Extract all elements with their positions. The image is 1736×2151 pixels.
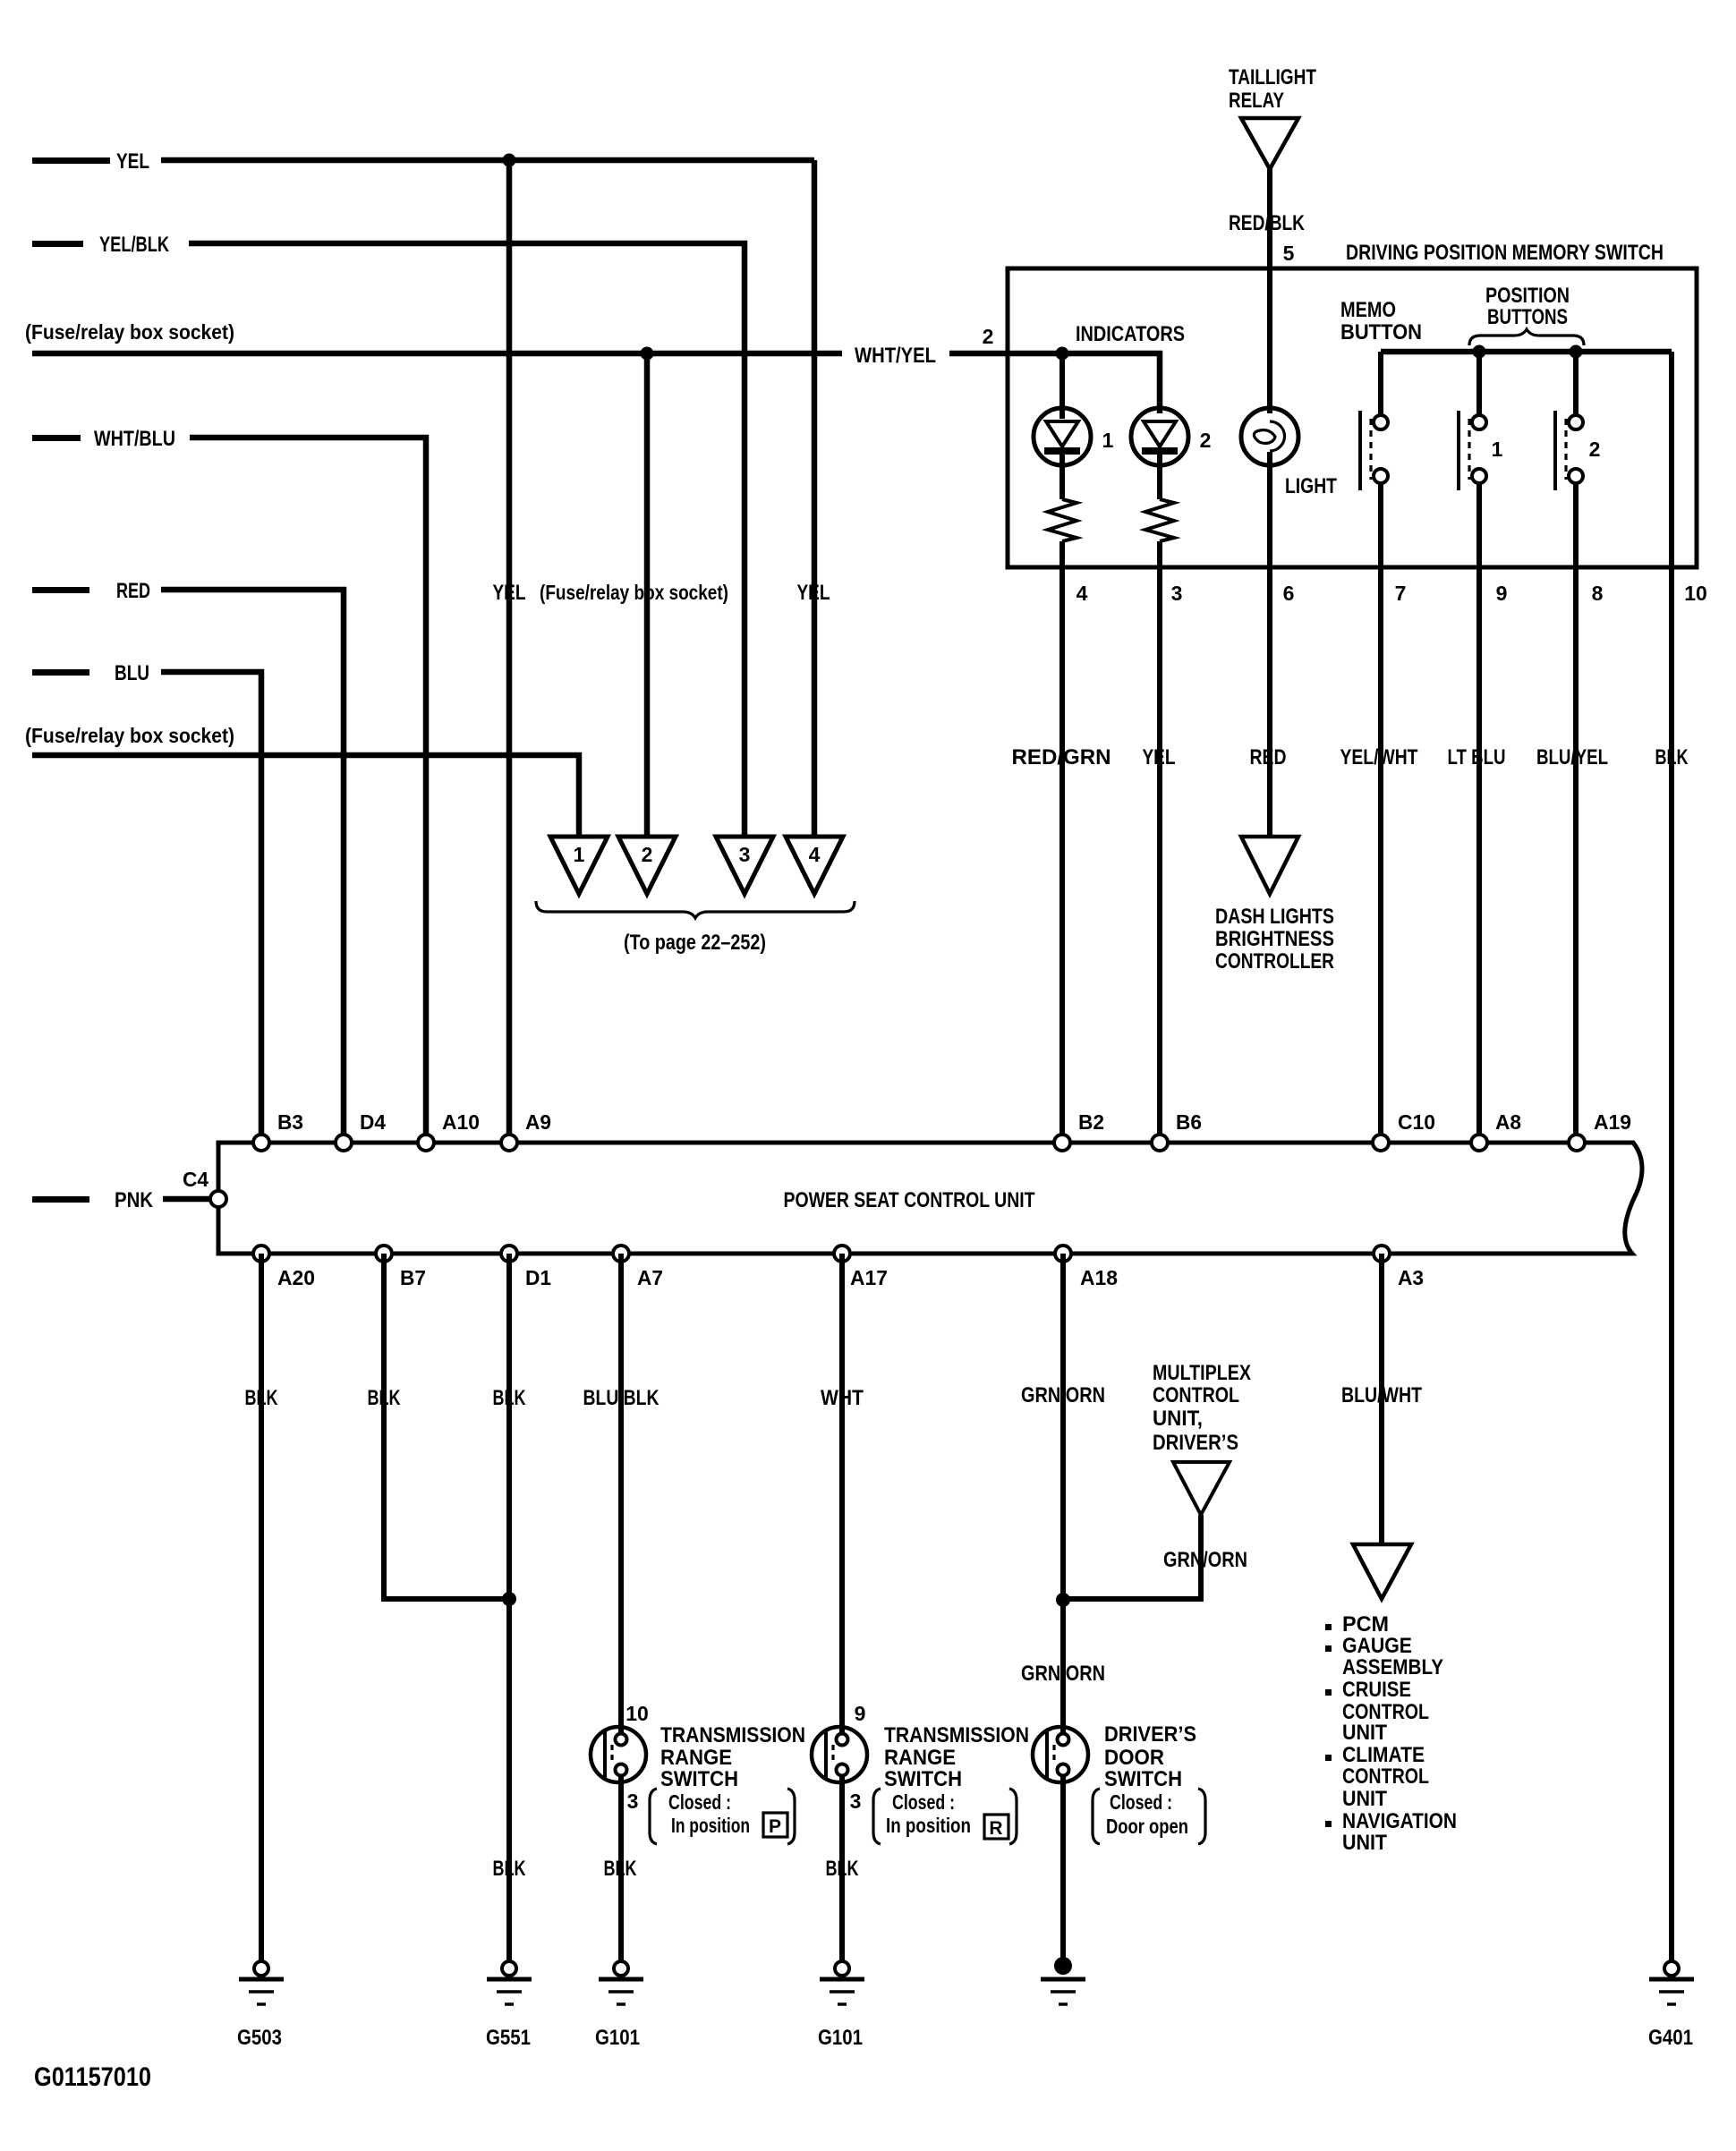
wire light bulb down to dash lights controller: [1267, 452, 1272, 837]
wire WHT/BLU run and leg down to A10: [190, 438, 426, 1143]
svg-text:WHT/BLU: WHT/BLU: [94, 427, 175, 451]
box driving position memory switch: [1008, 268, 1697, 567]
wire position button 2 drop: [1573, 352, 1579, 416]
svg-text:PCM: PCM: [1342, 1612, 1389, 1637]
svg-text:BLK: BLK: [245, 1386, 278, 1410]
svg-text:4: 4: [1076, 582, 1088, 605]
svg-text:BLU/BLK: BLU/BLK: [583, 1386, 660, 1410]
wire WHT/BLU stub: [32, 435, 81, 441]
svg-text:RANGE: RANGE: [660, 1746, 732, 1770]
svg-text:D4: D4: [360, 1110, 386, 1134]
svg-text:10: 10: [1684, 582, 1707, 605]
wire position button 1 down to A8: [1476, 483, 1482, 1143]
switch driver's door switch: [1033, 1727, 1088, 1782]
pin A9: [501, 1135, 517, 1151]
switch memo button: [1358, 411, 1362, 490]
pin C10: [1373, 1135, 1389, 1151]
svg-text:BUTTONS: BUTTONS: [1487, 305, 1568, 329]
ground G401: [1648, 1961, 1694, 2050]
svg-text:LT BLU: LT BLU: [1448, 745, 1506, 769]
svg-text:A9: A9: [525, 1110, 551, 1134]
svg-text:A8: A8: [1495, 1110, 1521, 1134]
wire memo button down to C10: [1378, 483, 1383, 1143]
wire B7 BLK down and over to D1 wire: [384, 1254, 509, 1599]
wire position button 1 drop: [1476, 352, 1482, 416]
svg-text:9: 9: [1496, 582, 1508, 605]
svg-text:7: 7: [1395, 582, 1407, 605]
svg-text:D1: D1: [525, 1266, 551, 1289]
svg-text:DRIVING POSITION MEMORY SWITCH: DRIVING POSITION MEMORY SWITCH: [1346, 241, 1664, 265]
svg-text:A10: A10: [442, 1110, 480, 1134]
svg-text:10: 10: [625, 1702, 649, 1725]
svg-text:BLK: BLK: [493, 1857, 526, 1881]
svg-text:R: R: [989, 1818, 1002, 1839]
pin D1: [501, 1246, 517, 1262]
svg-text:RANGE: RANGE: [884, 1746, 956, 1770]
svg-text:Closed :: Closed :: [668, 1790, 731, 1814]
wire RED run and leg down to D4: [161, 590, 344, 1143]
wire D1 BLK down to G551: [506, 1254, 512, 1961]
connector triangle A3 destinations: [1353, 1544, 1411, 1599]
box power seat control unit: [218, 1143, 1642, 1254]
svg-text:B6: B6: [1176, 1110, 1202, 1134]
svg-text:A7: A7: [637, 1266, 663, 1289]
wire A7 BLU/BLK down to transmission range switch: [618, 1254, 624, 1735]
brace over position buttons: [1469, 329, 1584, 345]
wire YEL horizontal run: [161, 157, 814, 164]
svg-text:3: 3: [739, 843, 751, 866]
svg-text:MEMO: MEMO: [1340, 298, 1396, 322]
svg-text:DOOR: DOOR: [1104, 1746, 1164, 1770]
svg-text:SWITCH: SWITCH: [884, 1767, 962, 1791]
wire multiplex branch GRN/ORN: [1063, 1515, 1201, 1599]
resistor under LED 2: [1145, 499, 1174, 541]
svg-text:GRN/ORN: GRN/ORN: [1021, 1383, 1105, 1407]
node position button 2 junction: [1570, 345, 1583, 359]
svg-text:4: 4: [809, 843, 821, 866]
svg-text:WHT/YEL: WHT/YEL: [855, 344, 936, 368]
wire branch down from fuse line 1 to triangle 2: [644, 353, 651, 837]
svg-text:UNIT,: UNIT,: [1153, 1407, 1203, 1431]
pin A20: [253, 1246, 269, 1262]
node position button 1 junction: [1473, 345, 1486, 359]
wire A18 below switch to ground: [1060, 1774, 1066, 1961]
brace left (door switch note): [1093, 1789, 1100, 1844]
wire RED/BLK from taillight relay down to light: [1267, 169, 1272, 413]
svg-text:RELAY: RELAY: [1229, 89, 1284, 113]
svg-text:BLU/YEL: BLU/YEL: [1536, 745, 1608, 769]
svg-text:SWITCH: SWITCH: [660, 1767, 738, 1791]
svg-text:UNIT: UNIT: [1342, 1831, 1387, 1855]
svg-text:DASH LIGHTS: DASH LIGHTS: [1215, 905, 1334, 929]
svg-text:Closed :: Closed :: [1110, 1790, 1172, 1814]
resistor under LED 1: [1048, 499, 1076, 541]
svg-text:B2: B2: [1078, 1110, 1104, 1134]
pin B2: [1054, 1135, 1070, 1151]
pin A3: [1374, 1246, 1390, 1262]
svg-text:UNIT: UNIT: [1342, 1721, 1387, 1745]
boxed letter P: [763, 1813, 787, 1837]
svg-text:BLK: BLK: [1655, 745, 1689, 769]
svg-text:A18: A18: [1080, 1266, 1118, 1289]
svg-text:POWER SEAT CONTROL UNIT: POWER SEAT CONTROL UNIT: [784, 1188, 1035, 1212]
svg-text:In position: In position: [886, 1814, 971, 1837]
node fuse line 1 junction: [641, 347, 654, 361]
wire BLU stub: [32, 669, 89, 676]
brace right (TRS R note): [1009, 1789, 1017, 1844]
brace under triangles: [536, 901, 855, 918]
wire BLK rail drop (pin 10) to G401: [1669, 352, 1674, 1961]
pin C4: [210, 1191, 226, 1207]
svg-text:G503: G503: [237, 2026, 282, 2050]
lamp LIGHT bulb: [1241, 408, 1298, 465]
svg-text:CONTROL: CONTROL: [1153, 1383, 1239, 1407]
pin A18: [1055, 1246, 1071, 1262]
pin A7: [613, 1246, 629, 1262]
svg-text:A20: A20: [277, 1266, 315, 1289]
wire fuse/relay socket line 2 and leg down to triangle 1: [32, 755, 579, 837]
svg-text:ASSEMBLY: ASSEMBLY: [1342, 1655, 1443, 1679]
svg-text:RED/BLK: RED/BLK: [1229, 211, 1306, 235]
svg-text:BLK: BLK: [493, 1386, 526, 1410]
svg-text:1: 1: [1102, 429, 1114, 452]
wire A18 GRN/ORN down to driver's door switch: [1060, 1254, 1066, 1735]
svg-text:A19: A19: [1594, 1110, 1631, 1134]
wire YEL stub: [32, 157, 110, 164]
node WHT/YEL junction at LED 1: [1056, 347, 1069, 361]
pin A17: [834, 1246, 850, 1262]
switch transmission range switch (R): [812, 1727, 867, 1782]
wire YEL right leg down to triangle 4: [812, 160, 818, 837]
svg-text:YEL/WHT: YEL/WHT: [1340, 745, 1418, 769]
node YEL junction: [503, 154, 516, 167]
svg-text:WHT: WHT: [821, 1386, 864, 1410]
svg-text:C4: C4: [183, 1168, 208, 1191]
bullet list PCM/GAUGE ASSEMBLY/CRUISE/CLIMATE/NAVIGATION: [1325, 1624, 1332, 1630]
svg-text:TRANSMISSION: TRANSMISSION: [884, 1723, 1029, 1747]
svg-text:DRIVER’S: DRIVER’S: [1104, 1722, 1196, 1747]
svg-text:Closed :: Closed :: [892, 1790, 955, 1814]
svg-text:In position: In position: [671, 1814, 750, 1837]
svg-text:5: 5: [1283, 242, 1295, 265]
brace left (TRS P note): [650, 1789, 657, 1844]
svg-text:G101: G101: [595, 2026, 640, 2050]
svg-text:(Fuse/relay box socket): (Fuse/relay box socket): [25, 724, 234, 747]
svg-text:GRN/ORN: GRN/ORN: [1163, 1548, 1247, 1572]
wire PNK stub: [32, 1196, 89, 1203]
indicator LED 2: [1131, 408, 1188, 465]
svg-text:DRIVER’S: DRIVER’S: [1153, 1431, 1238, 1455]
svg-text:2: 2: [1589, 438, 1601, 461]
svg-text:G01157010: G01157010: [34, 2062, 151, 2092]
svg-text:YEL: YEL: [493, 581, 526, 605]
svg-text:INDICATORS: INDICATORS: [1076, 322, 1185, 346]
svg-text:RED/GRN: RED/GRN: [1012, 745, 1111, 769]
svg-text:BLK: BLK: [826, 1857, 859, 1881]
svg-text:8: 8: [1592, 582, 1604, 605]
wire fuse/relay socket line 1 (WHT/YEL) left segment: [32, 351, 842, 357]
svg-text:YEL: YEL: [797, 581, 830, 605]
svg-text:GRN/ORN: GRN/ORN: [1021, 1662, 1105, 1686]
svg-text:G401: G401: [1648, 2026, 1693, 2050]
ground G101 (TRS R): [818, 1961, 864, 2050]
indicator LED 1: [1034, 408, 1091, 465]
ground G503: [237, 1961, 284, 2050]
ground (driver's door switch, unnamed): [1041, 1957, 1085, 2004]
brace right (door switch note): [1198, 1789, 1205, 1844]
svg-text:(Fuse/relay box socket): (Fuse/relay box socket): [25, 320, 234, 344]
wire A17 WHT down to transmission range switch 2: [839, 1254, 845, 1735]
wire YEL/BLK run and leg down to triangle 3: [189, 243, 745, 837]
svg-text:LIGHT: LIGHT: [1285, 474, 1337, 498]
svg-text:B3: B3: [277, 1110, 303, 1134]
wire PNK run to C4: [163, 1196, 210, 1203]
svg-text:YEL: YEL: [116, 149, 149, 174]
connector triangle 1 (to page 22-252): [550, 837, 608, 894]
switch transmission range switch (P): [591, 1727, 646, 1782]
wire YEL/BLK stub: [32, 241, 83, 247]
switch position button 2: [1553, 411, 1557, 490]
svg-text:BRIGHTNESS: BRIGHTNESS: [1215, 927, 1334, 951]
svg-text:BLK: BLK: [604, 1857, 637, 1881]
svg-text:3: 3: [627, 1790, 639, 1813]
svg-text:YEL: YEL: [1143, 745, 1176, 769]
wire memo button drop: [1378, 352, 1383, 416]
node B7/D1 junction: [502, 1592, 516, 1606]
brace right (TRS P note): [787, 1789, 795, 1844]
svg-text:CONTROLLER: CONTROLLER: [1215, 949, 1334, 973]
svg-text:POSITION: POSITION: [1485, 284, 1570, 308]
wire BLU run and leg down to B3: [161, 672, 261, 1143]
relay connector triangle (taillight relay): [1241, 118, 1298, 169]
svg-text:CRUISE: CRUISE: [1342, 1678, 1411, 1702]
brace left (TRS R note): [873, 1789, 881, 1844]
svg-text:NAVIGATION: NAVIGATION: [1342, 1809, 1457, 1833]
svg-text:2: 2: [1200, 429, 1212, 452]
svg-text:SWITCH: SWITCH: [1104, 1767, 1182, 1791]
svg-text:RED: RED: [1250, 745, 1287, 769]
svg-text:2: 2: [642, 843, 653, 866]
wire YEL branch down to A9: [506, 160, 513, 1143]
svg-text:(To page 22–252): (To page 22–252): [624, 931, 766, 955]
svg-text:CLIMATE: CLIMATE: [1342, 1743, 1425, 1767]
svg-text:G551: G551: [486, 2026, 531, 2050]
svg-text:2: 2: [983, 325, 994, 348]
ground G551: [486, 1961, 532, 2050]
wire LED2 down to B6: [1157, 541, 1162, 1143]
wire LED1 to resistor: [1059, 455, 1065, 499]
pin A8: [1471, 1135, 1487, 1151]
svg-text:9: 9: [855, 1702, 866, 1725]
svg-text:CONTROL: CONTROL: [1342, 1764, 1429, 1789]
svg-text:(Fuse/relay box socket): (Fuse/relay box socket): [540, 581, 728, 604]
svg-text:TAILLIGHT: TAILLIGHT: [1229, 65, 1316, 89]
svg-text:BLU: BLU: [115, 661, 149, 685]
connector triangle 3: [716, 837, 773, 894]
wire memo/position top rail: [1381, 349, 1672, 355]
wire LED1 feed: [1059, 353, 1065, 419]
svg-text:1: 1: [574, 843, 585, 866]
pin B3: [253, 1135, 269, 1151]
svg-text:A17: A17: [850, 1266, 888, 1289]
switch position button 1: [1457, 411, 1460, 490]
svg-text:C10: C10: [1398, 1110, 1435, 1134]
svg-text:BLU/WHT: BLU/WHT: [1341, 1383, 1422, 1407]
node A18 / multiplex junction: [1056, 1593, 1070, 1607]
svg-text:3: 3: [850, 1790, 862, 1813]
connector triangle multiplex control unit: [1173, 1462, 1230, 1515]
svg-text:P: P: [769, 1816, 781, 1837]
wire position button 2 down to A19: [1573, 483, 1579, 1143]
wire A20 BLK down to G503: [259, 1254, 264, 1961]
svg-text:RED: RED: [116, 579, 150, 603]
wire LED1 down to B2: [1059, 541, 1065, 1143]
svg-text:TRANSMISSION: TRANSMISSION: [660, 1723, 805, 1747]
connector triangle dash lights brightness controller: [1241, 837, 1298, 894]
pin B7: [376, 1246, 392, 1262]
connector triangle 2: [618, 837, 676, 894]
wire WHT/YEL right segment into memory switch box: [949, 353, 1160, 413]
svg-text:B7: B7: [400, 1266, 426, 1289]
svg-text:PNK: PNK: [115, 1188, 154, 1212]
pin A10: [418, 1135, 434, 1151]
svg-text:A3: A3: [1398, 1266, 1424, 1289]
wire A3 BLU/WHT down to arrow: [1379, 1254, 1384, 1544]
ground G101 (TRS P): [595, 1961, 643, 2050]
svg-text:6: 6: [1283, 582, 1295, 605]
wire LED2 to resistor: [1157, 455, 1162, 499]
svg-text:BLK: BLK: [368, 1386, 401, 1410]
boxed letter R: [984, 1815, 1008, 1839]
pin B6: [1152, 1135, 1168, 1151]
wire A17 below switch to G101: [839, 1774, 845, 1961]
svg-text:BUTTON: BUTTON: [1340, 320, 1422, 344]
svg-text:1: 1: [1492, 438, 1503, 461]
pin A19: [1569, 1135, 1585, 1151]
svg-text:MULTIPLEX: MULTIPLEX: [1153, 1361, 1251, 1385]
connector triangle 4: [786, 837, 843, 894]
wire RED stub: [32, 587, 89, 593]
svg-text:3: 3: [1171, 582, 1183, 605]
svg-text:GAUGE: GAUGE: [1342, 1634, 1412, 1658]
wire A7 below switch to G101: [618, 1774, 624, 1961]
svg-text:G101: G101: [818, 2026, 863, 2050]
svg-text:Door open: Door open: [1106, 1815, 1188, 1838]
svg-text:YEL/BLK: YEL/BLK: [99, 233, 170, 257]
svg-text:UNIT: UNIT: [1342, 1787, 1387, 1811]
pin D4: [336, 1135, 352, 1151]
